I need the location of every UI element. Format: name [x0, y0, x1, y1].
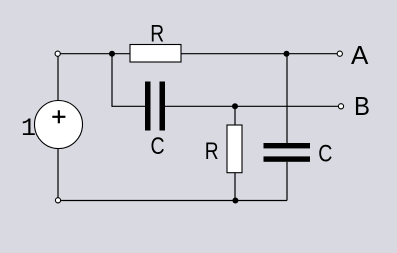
resistor R2 (vertical, middle): [227, 125, 242, 173]
svg-text:A: A: [351, 40, 369, 70]
node B terminal: [338, 104, 343, 109]
junction dot: node B / R2 top: [232, 103, 238, 109]
svg-text:C: C: [151, 132, 165, 159]
wire: node A top rail right segment: [181, 53, 338, 55]
wire: left rail from source - terminal down: [57, 149, 59, 199]
wire: R2 bottom lead: [234, 173, 236, 201]
wire: node A top rail left segment: [60, 53, 130, 55]
capacitor C1 right plate: [160, 82, 166, 131]
label node B: [354, 92, 370, 121]
resistor R1 (horizontal, top): [130, 45, 181, 63]
svg-text:R: R: [150, 19, 164, 47]
capacitor C1 left plate: [145, 82, 151, 131]
junction dot: top rail / C1 branch: [109, 51, 115, 57]
node: open terminal top-left (source +): [55, 51, 60, 56]
node A terminal: [337, 51, 342, 56]
svg-text:R: R: [205, 137, 219, 165]
wire: node B row from C1 to terminal B: [165, 105, 339, 107]
label C1: [151, 132, 165, 159]
wire: bottom ground rail: [61, 200, 288, 202]
label C2: [318, 140, 332, 167]
svg-text:B: B: [354, 92, 370, 121]
voltage source V1: [35, 101, 83, 149]
label R2: [205, 137, 219, 165]
capacitor C2 bottom plate: [264, 156, 311, 161]
label R1: [150, 19, 164, 47]
wire: left rail from source + terminal up: [57, 54, 59, 101]
node: open terminal bottom-left (source -): [55, 198, 60, 203]
wire: vertical from node A dot down to C2 top plate: [286, 54, 288, 143]
voltage source V1 plus sign: [52, 110, 65, 123]
wire: vertical from top dot down to C1 row: [112, 54, 145, 107]
svg-text:C: C: [318, 140, 332, 167]
wire: R2 top lead: [234, 106, 236, 125]
junction dot: bottom rail / R2 bottom: [232, 198, 238, 204]
svg-text:1: 1: [21, 114, 36, 143]
junction dot: node A / C2 branch: [284, 51, 290, 57]
capacitor C2 top plate: [264, 143, 311, 148]
wire: C2 bottom plate to bottom rail: [286, 162, 288, 201]
